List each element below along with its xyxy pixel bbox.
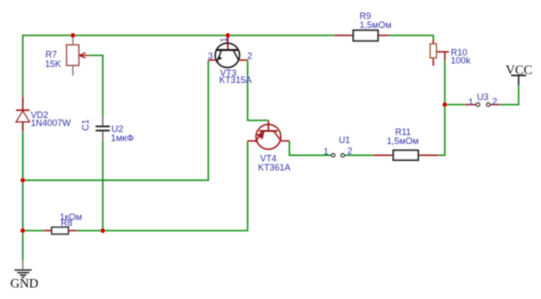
label R9 value bbox=[360, 11, 392, 30]
label C1 rotated bbox=[81, 119, 91, 131]
label VT4 name bbox=[258, 153, 291, 172]
svg-text:1мкФ: 1мкФ bbox=[111, 133, 134, 144]
node dot C1 bottom bbox=[101, 228, 106, 233]
svg-text:2: 2 bbox=[492, 97, 497, 107]
svg-text:R8: R8 bbox=[61, 218, 73, 228]
wire U1 pin2 to R11 bbox=[345, 154, 373, 156]
wire node to U3 pin1 bbox=[445, 104, 465, 106]
svg-text:100k: 100k bbox=[451, 55, 471, 65]
label VD2 value bbox=[31, 110, 72, 128]
connector U3 bbox=[465, 103, 500, 106]
resistor R10 (with tap) bbox=[430, 40, 449, 66]
label VT3 name bbox=[219, 68, 252, 85]
resistor R8 bbox=[44, 227, 78, 234]
label U3 bbox=[477, 92, 489, 102]
label R11 value bbox=[387, 127, 419, 146]
resistor R7 potentiometer bbox=[67, 35, 89, 75]
label U2 value bbox=[111, 124, 134, 144]
resistor R9 bbox=[334, 30, 389, 41]
wire R11 right up to node bbox=[439, 61, 445, 155]
wire U3 pin2 to VCC bbox=[500, 85, 519, 105]
label VT3 pin 1 rotated bbox=[219, 37, 229, 42]
svg-text:C1: C1 bbox=[81, 119, 91, 131]
wire top rail green bbox=[23, 35, 334, 180]
label R7 value bbox=[45, 50, 61, 69]
svg-text:1N4007W: 1N4007W bbox=[31, 118, 72, 128]
transistor VT4 bbox=[248, 120, 290, 149]
resistor R11 bbox=[373, 150, 439, 160]
label VT3 pin 3 bbox=[208, 51, 213, 61]
diode VD2 bbox=[16, 97, 30, 132]
svg-text:1: 1 bbox=[219, 37, 229, 42]
ground bbox=[15, 261, 32, 278]
svg-text:1,5мОм: 1,5мОм bbox=[360, 20, 392, 30]
svg-text:KT361A: KT361A bbox=[258, 162, 291, 172]
label U3 pin 1 bbox=[468, 97, 473, 107]
svg-text:VCC: VCC bbox=[506, 62, 533, 77]
svg-text:2: 2 bbox=[247, 51, 252, 61]
node dot wire1 left bbox=[21, 178, 26, 183]
svg-text:GND: GND bbox=[10, 275, 38, 290]
svg-text:U1: U1 bbox=[339, 135, 351, 145]
label GND bbox=[10, 275, 38, 290]
svg-text:KT315A: KT315A bbox=[219, 75, 252, 85]
label VT3 pin 2 bbox=[247, 51, 252, 61]
power VCC bbox=[506, 62, 533, 85]
label R10 value bbox=[451, 47, 471, 65]
wire VT3 collector to VT4 base bbox=[248, 60, 269, 120]
label U1 pin 1 bbox=[324, 146, 329, 156]
label U1 bbox=[339, 135, 351, 145]
node dot R7 top bbox=[71, 33, 76, 38]
wire node wire2 (R8 row) bbox=[23, 230, 44, 232]
wire C1 bottom to wire2 bbox=[102, 141, 104, 231]
label U3 pin 2 bbox=[492, 97, 497, 107]
node dot R11 U3 junction bbox=[443, 102, 448, 107]
wire R8 right to VT4 emitter bbox=[77, 141, 248, 231]
wire left rail lower (diode to ground) bbox=[22, 132, 24, 261]
node dot VT3 base top bbox=[226, 33, 231, 38]
wire node wire1 (VT3 emitter to left rail) bbox=[23, 60, 209, 180]
svg-text:3: 3 bbox=[208, 51, 213, 61]
wire R9 to R10 corner bbox=[389, 35, 433, 40]
wire VT4 collector to U1 bbox=[289, 141, 331, 155]
svg-text:1: 1 bbox=[468, 97, 473, 107]
label U1 pin 2 bbox=[347, 146, 352, 156]
svg-text:1: 1 bbox=[324, 146, 329, 156]
svg-text:2: 2 bbox=[347, 146, 352, 156]
label R8 value bbox=[60, 212, 82, 228]
svg-text:15K: 15K bbox=[45, 59, 61, 69]
node dot wire2 left bbox=[21, 228, 26, 233]
capacitor C1 (U2) bbox=[96, 116, 110, 141]
svg-text:U3: U3 bbox=[477, 92, 489, 102]
transistor VT3 bbox=[208, 35, 247, 67]
connector U1 bbox=[332, 154, 345, 157]
svg-text:1,5мОм: 1,5мОм bbox=[387, 136, 419, 146]
wire R7 wiper to C1 bbox=[89, 55, 103, 116]
